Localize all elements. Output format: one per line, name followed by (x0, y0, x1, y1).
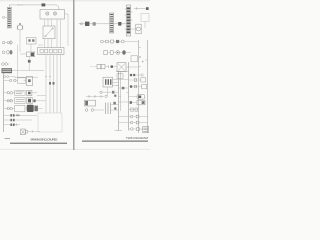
connector row CR2 (2, 50, 12, 54)
switch S1 box (43, 26, 55, 39)
label box mid (85, 100, 96, 106)
splice mark (113, 102, 115, 105)
sensor row R2 (104, 50, 131, 55)
wire motor right (28, 131, 40, 133)
box B2 (26, 77, 32, 86)
module A2 dark box (27, 97, 32, 103)
wire module down right (28, 63, 30, 71)
svg-text:TWIN DIAGRAM: TWIN DIAGRAM (126, 136, 149, 140)
motor M1 (21, 129, 28, 135)
outline box faint (38, 113, 62, 132)
wire X4 down (107, 87, 109, 96)
relay K2 (27, 90, 37, 95)
wires ladder to V1 (111, 105, 119, 111)
connector pair row A (10, 79, 18, 81)
row box RB1 (129, 78, 146, 82)
bottom right connector row F3 (129, 128, 143, 131)
harness wires down (46, 55, 61, 114)
wire module down left (28, 57, 30, 60)
bus branch stubs (4, 81, 14, 125)
connector row CR1 (2, 40, 12, 45)
vertical bus V1b (119, 71, 121, 111)
bus V1-V2 links (116, 80, 129, 123)
pump P3 (136, 24, 141, 34)
wires X4 to bus (112, 80, 118, 86)
caption rule left (10, 143, 67, 144)
small box under solenoid (117, 74, 123, 79)
row box RB3 relay (129, 94, 145, 99)
fuse F1 (42, 3, 46, 6)
ladder bars mid (106, 103, 111, 115)
wire pump-sensor link (20, 53, 27, 55)
chain row mid (86, 95, 107, 98)
vertical bus V1 (118, 71, 120, 130)
wire strip to top run (9, 5, 41, 7)
inline connector C1 (80, 23, 82, 25)
sensor box B0 (27, 38, 37, 45)
label text top-left (18, 4, 24, 7)
bus bottom bend (115, 130, 123, 132)
faint box top right (141, 14, 149, 22)
module A1 box (27, 52, 35, 63)
row box RB4 (129, 100, 146, 105)
box B1 (18, 78, 26, 83)
page background (0, 0, 150, 150)
wire from label block (12, 70, 44, 72)
connector pair mid (85, 109, 104, 112)
terminator T1 (146, 7, 149, 10)
left bus marks (114, 95, 116, 110)
bus top link (116, 70, 129, 72)
connector row D (7, 107, 15, 110)
fuse F2 (85, 22, 89, 26)
wires switch to connector (38, 39, 52, 48)
wire down from box (144, 22, 146, 29)
row RB0 splices (129, 74, 144, 77)
footer note left (5, 137, 11, 140)
splice J2 (53, 82, 55, 85)
connector row CR3 (2, 63, 10, 66)
wires relay to switch (45, 14, 69, 48)
wire sensor down (30, 44, 32, 52)
box B3 (15, 105, 25, 111)
label block L1 (2, 68, 13, 73)
wire top right (134, 7, 146, 10)
power bus right line 1 (138, 40, 140, 133)
bottom right connector row F2 (129, 121, 149, 124)
connector pair row B (7, 91, 25, 96)
wire B3 to A3 (25, 108, 27, 110)
svg-text:BRAKING ENCLOSURES: BRAKING ENCLOSURES (31, 137, 58, 141)
switch pair row E1 (10, 114, 37, 117)
wire pump down (19, 30, 21, 52)
power bus right line 2 (147, 40, 149, 133)
connector strip X3 (125, 5, 133, 36)
wire X3 to pump (131, 28, 136, 30)
caption rule right (82, 141, 148, 142)
connector strip X2 (110, 13, 114, 33)
terminal strip TB1 (7, 7, 11, 28)
row marks RB5 (129, 108, 139, 111)
wire B1 to B2 (24, 80, 27, 82)
splice J1 (49, 82, 51, 85)
inline connector C2 (93, 22, 96, 25)
harness tick marks (45, 76, 51, 78)
splice J3 (118, 22, 121, 26)
pump P2 (17, 23, 23, 30)
vertical bus V2 (128, 62, 130, 131)
label block right (143, 127, 149, 133)
dashed link row (90, 64, 117, 68)
label box L2 (7, 98, 25, 104)
connector row CR4 (4, 76, 15, 79)
switch pair row E2 (10, 119, 32, 122)
switch pair row E3 (10, 124, 20, 127)
sensor row mid-left (100, 91, 119, 94)
bottom right connector row F1 (129, 115, 149, 118)
solenoid box with X (117, 63, 126, 72)
relay K1 coil box (40, 10, 65, 19)
wire A3 right (38, 108, 43, 110)
feed wire right page (79, 23, 110, 25)
connector P1 (3, 16, 8, 18)
vertical feeder (17, 45, 19, 78)
module A3 dark box (27, 105, 34, 112)
bottom edge shading (0, 149, 150, 150)
connector box X4 (103, 77, 112, 87)
connector X1 strip (38, 48, 65, 55)
row box RB2 (129, 84, 147, 88)
branch to harness (37, 95, 46, 97)
top edge shading (0, 0, 150, 1)
small box row2 right (131, 56, 144, 63)
bus rungs (139, 48, 148, 67)
ground bus left (3, 73, 5, 132)
wire solenoid to bus (126, 66, 139, 68)
page divider (73, 0, 75, 150)
splice on V2 (122, 87, 125, 90)
wire top to relay (45, 5, 59, 10)
second cross wire (15, 76, 38, 78)
link wire X2-X3 (114, 23, 126, 25)
sensor row R1 (101, 40, 139, 43)
